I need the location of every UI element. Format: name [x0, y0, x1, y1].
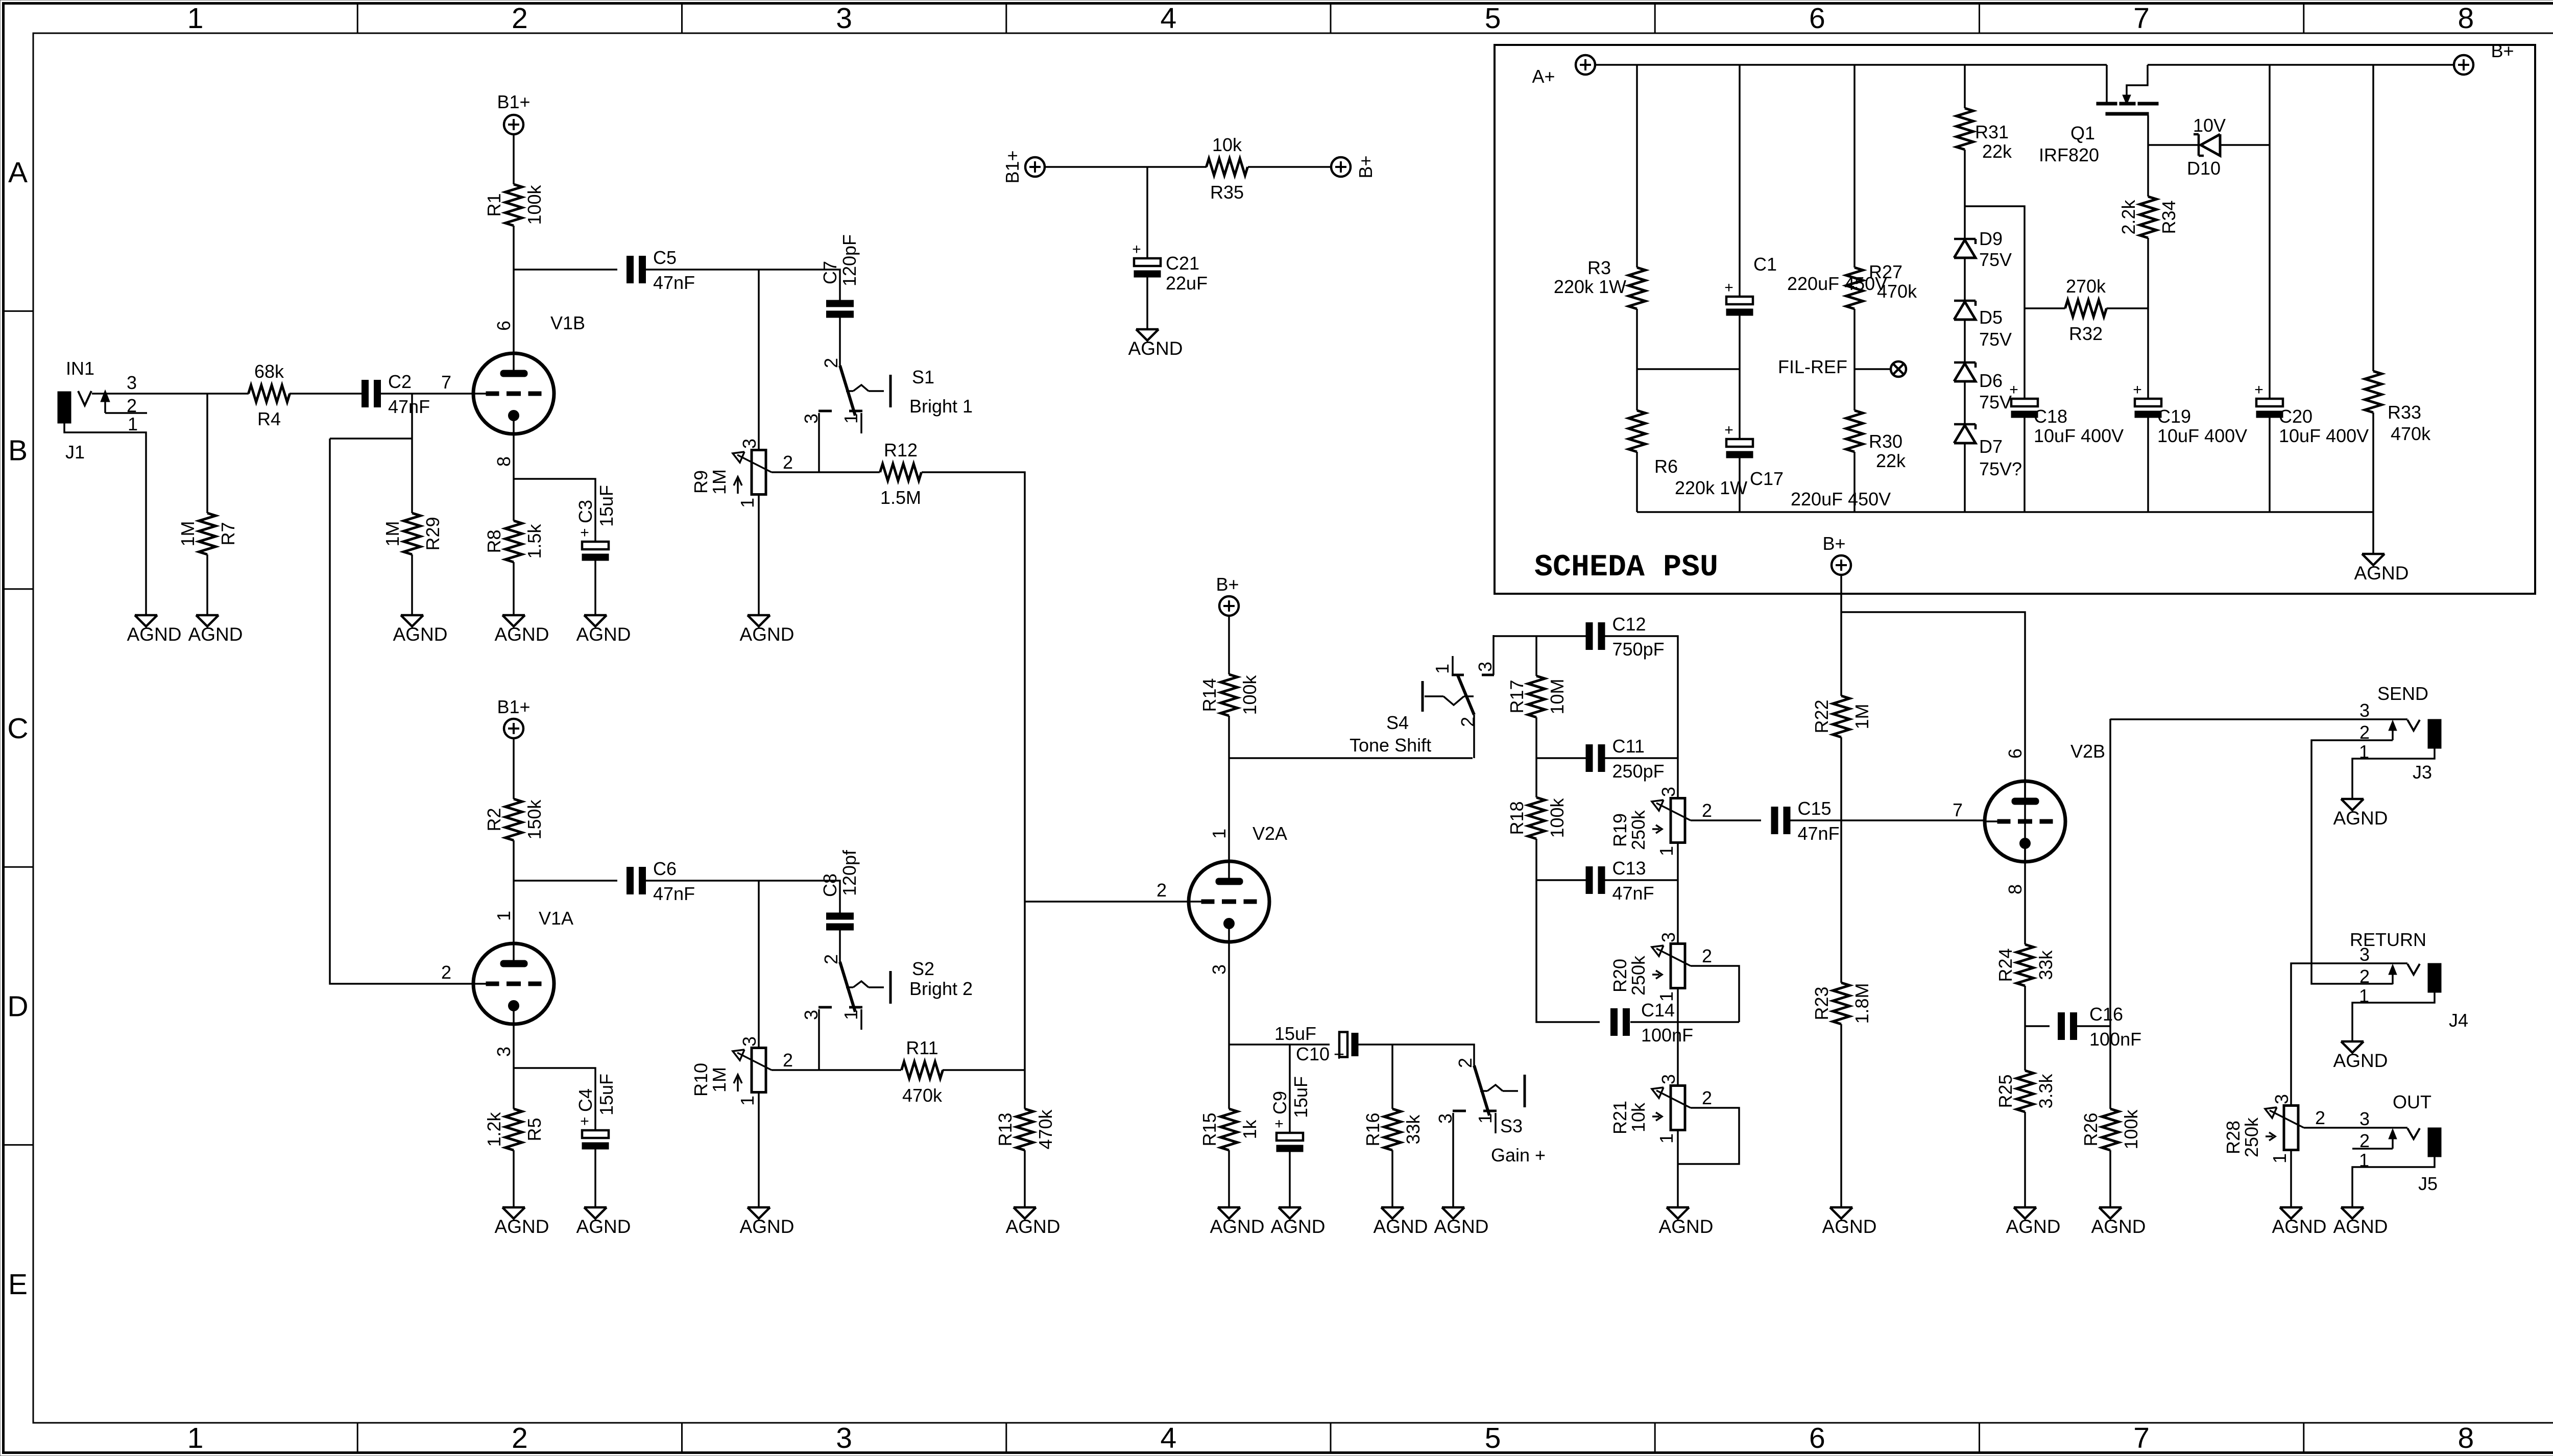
wire [1964, 150, 1966, 239]
svg-text:47nF: 47nF [388, 396, 430, 417]
svg-text:1: 1 [1656, 991, 1677, 1002]
wire [514, 1068, 595, 1130]
switch S1 [801, 358, 973, 433]
wire [772, 1069, 901, 1071]
svg-text:1: 1 [2269, 1153, 2290, 1163]
capacitor C15 [1771, 798, 1840, 844]
triode V2A [1157, 823, 1287, 975]
svg-text:AGND: AGND [1434, 1216, 1489, 1237]
wire [1289, 1045, 1291, 1133]
power terminal B+ (PSU bottom) [1822, 533, 1851, 575]
wire [1964, 381, 1966, 424]
power terminal B+ (V2A) [1216, 574, 1239, 616]
svg-text:B+: B+ [1216, 574, 1239, 595]
svg-text:10uF 400V: 10uF 400V [2034, 425, 2124, 446]
svg-text:220k 1W: 220k 1W [1554, 276, 1626, 297]
svg-text:15uF: 15uF [1274, 1023, 1316, 1044]
resistor R16 [1362, 1109, 1424, 1150]
svg-text:6: 6 [2005, 748, 2026, 759]
label R30 [1869, 431, 1906, 471]
svg-text:R14: R14 [1199, 678, 1220, 712]
svg-text:4: 4 [1161, 1422, 1177, 1454]
svg-text:C17: C17 [1750, 468, 1784, 489]
svg-text:2: 2 [783, 1050, 793, 1071]
svg-text:J5: J5 [2418, 1173, 2438, 1194]
wire [1677, 843, 1679, 944]
svg-text:2: 2 [1457, 717, 1478, 727]
svg-text:120pf: 120pf [839, 850, 860, 896]
triode V1A [441, 908, 573, 1057]
wire [1840, 575, 1842, 696]
capacitor C11 [1586, 736, 1665, 782]
svg-text:C10: C10 [1296, 1044, 1330, 1064]
svg-text:AGND: AGND [2354, 563, 2409, 584]
wire [1229, 757, 1473, 759]
svg-text:B1+: B1+ [497, 696, 530, 717]
svg-text:R22: R22 [1811, 699, 1832, 733]
wire [1289, 1152, 1291, 1207]
svg-text:C1: C1 [1753, 254, 1777, 275]
svg-text:8: 8 [493, 456, 514, 467]
svg-text:1: 1 [187, 2, 204, 35]
switch S3 [1435, 1058, 1546, 1166]
wire [1739, 458, 1741, 512]
svg-text:C9: C9 [1269, 1091, 1290, 1114]
svg-text:75V: 75V [1979, 329, 2012, 350]
svg-text:1: 1 [187, 1422, 204, 1454]
wire [1739, 316, 1741, 439]
svg-text:10uF 400V: 10uF 400V [2279, 425, 2369, 446]
svg-text:AGND: AGND [740, 624, 794, 645]
svg-text:B+: B+ [1355, 155, 1376, 178]
svg-text:D5: D5 [1979, 307, 2003, 328]
svg-text:470k: 470k [1877, 281, 1917, 302]
svg-text:5: 5 [1485, 2, 1501, 35]
wire [92, 393, 249, 395]
ground AGND (R25) [2006, 1207, 2061, 1237]
svg-text:100k: 100k [1239, 674, 1260, 715]
svg-text:1M: 1M [1851, 703, 1872, 729]
svg-text:+: + [1274, 1115, 1284, 1132]
wire [1228, 942, 1230, 1109]
resistor R25 [1995, 1071, 2056, 1112]
wire [1358, 1045, 1474, 1065]
capacitor C2 [362, 371, 430, 417]
capacitor C3 [575, 485, 617, 561]
resistor R5 [484, 1109, 545, 1150]
resistor R33 [2365, 371, 2382, 412]
svg-text:3: 3 [1209, 964, 1230, 975]
svg-text:D7: D7 [1979, 436, 2003, 457]
svg-text:R23: R23 [1811, 986, 1832, 1020]
wire [2109, 1150, 2111, 1207]
svg-text:3: 3 [739, 1036, 760, 1047]
wire [2077, 1025, 2110, 1027]
svg-text:6: 6 [493, 321, 514, 331]
svg-text:AGND: AGND [1128, 338, 1183, 359]
label R3 [1554, 257, 1626, 297]
svg-text:AGND: AGND [1210, 1216, 1265, 1237]
label R33 [2388, 402, 2431, 444]
svg-text:V2A: V2A [1253, 823, 1287, 844]
wire [290, 393, 362, 395]
wire [1536, 757, 1586, 759]
svg-text:1: 1 [1656, 846, 1677, 856]
wire [1228, 616, 1230, 674]
svg-text:R9: R9 [690, 470, 711, 494]
svg-text:8: 8 [2458, 1422, 2474, 1454]
wire [1025, 901, 1190, 903]
svg-text:3: 3 [2359, 944, 2370, 965]
svg-text:2: 2 [512, 1422, 528, 1454]
svg-text:R29: R29 [422, 517, 443, 550]
wire [594, 561, 596, 615]
wire [513, 134, 515, 184]
svg-text:R17: R17 [1506, 680, 1527, 713]
resistor R24 [1995, 944, 2056, 986]
svg-text:470k: 470k [1035, 1109, 1056, 1149]
svg-text:220k 1W: 220k 1W [1675, 477, 1747, 498]
wire [818, 413, 820, 472]
ground AGND (C3) [576, 615, 631, 645]
wire [1637, 511, 2373, 513]
wire [1228, 1150, 1230, 1207]
svg-text:AGND: AGND [1271, 1216, 1326, 1237]
svg-text:6: 6 [1809, 1422, 1825, 1454]
wire [1248, 166, 1331, 168]
svg-text:R32: R32 [2069, 323, 2103, 344]
wire [2304, 1127, 2407, 1129]
jack J4 [2350, 929, 2468, 1031]
svg-text:2: 2 [127, 395, 137, 416]
ground AGND (R5) [495, 1207, 549, 1237]
jack J3 ground wire [2352, 748, 2435, 799]
jack J1 ground wire [64, 422, 146, 615]
svg-text:C16: C16 [2089, 1004, 2123, 1025]
svg-text:C5: C5 [653, 247, 677, 268]
capacitor C20 [2254, 381, 2369, 446]
svg-text:68k: 68k [254, 361, 284, 382]
ground AGND (J1) [127, 615, 182, 645]
svg-text:Tone Shift: Tone Shift [1350, 735, 1431, 756]
ground AGND (R15) [1210, 1207, 1265, 1237]
svg-text:D6: D6 [1979, 370, 2003, 391]
svg-text:+: + [2133, 381, 2142, 398]
svg-text:3: 3 [493, 1047, 514, 1057]
resistor R31 [1957, 108, 1973, 150]
capacitor C14 [1611, 1000, 1694, 1046]
svg-text:Gain +: Gain + [1491, 1145, 1546, 1166]
svg-text:AGND: AGND [1006, 1216, 1061, 1237]
capacitor C18 [2009, 381, 2124, 446]
svg-text:3: 3 [1658, 932, 1679, 942]
svg-text:3: 3 [2359, 1108, 2370, 1129]
svg-text:+: + [580, 1113, 589, 1130]
wire SEND pin2 to RETURN pin2 [2311, 740, 2393, 984]
wire [1739, 65, 1741, 297]
svg-text:470k: 470k [2391, 423, 2431, 444]
wire [1964, 65, 1966, 108]
capacitor C17 [1724, 422, 1891, 509]
resistor R32 [2025, 276, 2148, 344]
svg-text:250k: 250k [1628, 955, 1649, 996]
svg-text:FIL-REF: FIL-REF [1778, 356, 1847, 377]
wire [646, 270, 840, 300]
wire [1391, 1045, 1393, 1109]
wire [2109, 719, 2111, 1109]
svg-text:100k: 100k [1547, 797, 1568, 838]
svg-text:C21: C21 [1166, 253, 1199, 274]
svg-text:250k: 250k [2241, 1117, 2262, 1157]
wire [1964, 258, 1966, 301]
svg-text:AGND: AGND [1659, 1216, 1714, 1237]
label FIL-REF [1778, 356, 1847, 377]
label R31 [1975, 122, 2012, 162]
svg-text:8: 8 [2005, 884, 2026, 894]
svg-text:22k: 22k [1982, 141, 2012, 162]
jack J1 [58, 358, 147, 463]
svg-text:R1: R1 [484, 193, 504, 216]
wire [1452, 1113, 1454, 1207]
wire [1536, 635, 1586, 637]
svg-text:22k: 22k [1876, 450, 1906, 471]
switch S2 [801, 954, 973, 1030]
ground AGND (J5) [2333, 1207, 2388, 1237]
wire [1494, 635, 1536, 637]
ground AGND (J4) [2333, 1041, 2388, 1071]
svg-text:8: 8 [2458, 2, 2474, 35]
label R27 [1869, 261, 1917, 302]
svg-text:C12: C12 [1612, 614, 1646, 635]
wire [513, 840, 515, 943]
svg-text:AGND: AGND [2091, 1216, 2146, 1237]
wire [1596, 64, 2107, 66]
wire [1853, 65, 1856, 268]
svg-text:1k: 1k [1239, 1119, 1260, 1139]
svg-text:2: 2 [1702, 1087, 1712, 1108]
ground AGND (R26) [2091, 1207, 2146, 1237]
resistor R7 [177, 513, 238, 554]
svg-text:IRF820: IRF820 [2039, 144, 2099, 165]
svg-text:SEND: SEND [2377, 683, 2428, 704]
ground AGND (R13) [1006, 1207, 1061, 1237]
svg-text:3: 3 [1658, 787, 1679, 797]
wire [513, 226, 515, 354]
wire [2024, 1112, 2026, 1207]
svg-text:3: 3 [836, 1422, 852, 1454]
wire [206, 554, 208, 615]
wire [206, 394, 208, 513]
resistor R4 [249, 361, 290, 429]
potentiometer R20 [1609, 932, 1712, 1002]
resistor R14 [1199, 674, 1260, 716]
svg-text:R31: R31 [1975, 122, 2009, 142]
svg-text:7: 7 [441, 372, 451, 393]
wire [2269, 418, 2271, 512]
potentiometer R10 [690, 1036, 793, 1106]
ground AGND (R7) [188, 615, 243, 645]
resistor R11 [902, 1037, 943, 1106]
wire [594, 1149, 596, 1207]
svg-text:250k: 250k [1628, 810, 1649, 850]
svg-text:2: 2 [1455, 1058, 1476, 1068]
jack J5 [2359, 1091, 2441, 1194]
wire [330, 439, 473, 984]
power terminal B+ (rail) [1331, 155, 1376, 178]
svg-text:1: 1 [840, 1010, 861, 1020]
svg-text:33k: 33k [1403, 1114, 1424, 1144]
svg-text:D9: D9 [1979, 228, 2003, 249]
svg-text:R2: R2 [484, 808, 504, 831]
svg-text:B+: B+ [1822, 533, 1845, 554]
wire [1391, 1150, 1393, 1207]
resistor R27 [1846, 268, 1863, 309]
svg-text:C: C [7, 712, 28, 745]
wire [1229, 1044, 1330, 1046]
svg-text:3: 3 [127, 372, 137, 393]
svg-text:C6: C6 [653, 858, 677, 879]
wire [758, 494, 760, 615]
triode V2B [1953, 741, 2105, 894]
svg-text:R35: R35 [1210, 182, 1244, 203]
wire [758, 270, 760, 450]
ground AGND (J3) [2333, 799, 2388, 829]
wire [411, 394, 413, 513]
svg-text:R26: R26 [2080, 1112, 2101, 1146]
svg-text:100nF: 100nF [2089, 1029, 2141, 1050]
svg-text:2: 2 [512, 2, 528, 35]
wire [1691, 819, 1761, 821]
svg-text:100nF: 100nF [1641, 1025, 1693, 1046]
wire [758, 881, 760, 1061]
svg-text:E: E [8, 1268, 28, 1301]
wire [514, 269, 617, 271]
wire [513, 1150, 515, 1207]
svg-text:10k: 10k [1212, 134, 1242, 155]
svg-text:1: 1 [493, 911, 514, 921]
zener diode D7 [1954, 424, 2022, 479]
svg-text:15uF: 15uF [1290, 1076, 1311, 1118]
svg-text:AGND: AGND [393, 624, 448, 645]
wire [1536, 880, 1600, 1022]
svg-text:J4: J4 [2449, 1010, 2468, 1031]
svg-text:AGND: AGND [740, 1216, 794, 1237]
PSU box outline [1495, 45, 2535, 594]
jack J5 ground wire [2352, 1157, 2435, 1207]
svg-text:1.5k: 1.5k [524, 523, 545, 559]
capacitor C19 [2133, 381, 2247, 446]
wire [1965, 206, 2025, 399]
svg-text:2: 2 [2315, 1107, 2325, 1128]
ground AGND (R9) [740, 615, 794, 645]
capacitor C1 [1724, 254, 1887, 316]
wire [839, 930, 841, 962]
svg-text:Bright 2: Bright 2 [909, 978, 973, 999]
svg-text:R6: R6 [1654, 456, 1678, 477]
svg-text:1: 1 [1432, 664, 1453, 674]
potentiometer R9 [690, 439, 793, 508]
ground AGND (R16) [1374, 1207, 1428, 1237]
svg-text:150k: 150k [524, 799, 545, 839]
svg-text:AGND: AGND [495, 624, 549, 645]
capacitor C5 [627, 247, 695, 293]
potentiometer R21 [1609, 1074, 1712, 1144]
svg-text:AGND: AGND [576, 1216, 631, 1237]
svg-text:R30: R30 [1869, 431, 1902, 452]
zener diode D5 [1954, 301, 2012, 350]
wire [513, 434, 515, 521]
svg-text:R10: R10 [690, 1063, 711, 1097]
resistor R29 [382, 513, 443, 554]
svg-text:6: 6 [1809, 2, 1825, 35]
resistor R1 [484, 184, 545, 226]
svg-text:1.8M: 1.8M [1851, 983, 1872, 1024]
svg-text:S4: S4 [1386, 712, 1409, 733]
svg-text:1M: 1M [177, 521, 198, 546]
svg-text:R4: R4 [257, 408, 281, 429]
svg-text:R20: R20 [1609, 959, 1630, 992]
svg-text:4: 4 [1161, 2, 1177, 35]
svg-text:AGND: AGND [2272, 1216, 2327, 1237]
resistor R23 [1811, 983, 1872, 1024]
svg-text:R16: R16 [1362, 1112, 1383, 1146]
wire [2025, 1025, 2050, 1027]
resistor R12 [880, 440, 922, 508]
svg-text:1M: 1M [709, 1067, 730, 1093]
svg-text:J3: J3 [2413, 762, 2432, 783]
capacitor C13 [1586, 858, 1654, 904]
capacitor C6 [627, 858, 695, 904]
svg-text:3: 3 [1475, 662, 1496, 672]
svg-text:C3: C3 [575, 500, 596, 523]
svg-text:B1+: B1+ [1002, 150, 1023, 183]
wire [772, 471, 880, 473]
wire [1964, 320, 1966, 362]
svg-text:+: + [580, 524, 589, 541]
zener diode D9 [1954, 228, 2012, 270]
wire [1853, 309, 1856, 410]
svg-text:SCHEDA PSU: SCHEDA PSU [1534, 550, 1718, 585]
wire [1024, 1150, 1026, 1207]
svg-text:R15: R15 [1199, 1112, 1220, 1146]
svg-text:C19: C19 [2157, 406, 2191, 427]
svg-text:3: 3 [2271, 1094, 2292, 1104]
svg-text:C4: C4 [575, 1088, 596, 1112]
svg-text:1.2k: 1.2k [484, 1111, 504, 1147]
svg-text:AGND: AGND [127, 624, 182, 645]
svg-text:R24: R24 [1995, 948, 2016, 982]
svg-text:220uF 450V: 220uF 450V [1791, 489, 1891, 509]
svg-text:15uF: 15uF [596, 485, 617, 527]
wire [2110, 718, 2407, 720]
svg-text:2: 2 [441, 962, 451, 983]
svg-text:A: A [8, 156, 28, 189]
wire [2148, 64, 2454, 66]
svg-text:B+: B+ [2491, 40, 2514, 61]
wire [1677, 1130, 1679, 1207]
svg-text:AGND: AGND [2333, 1050, 2388, 1071]
ground AGND (R29) [393, 615, 448, 645]
svg-text:C11: C11 [1612, 736, 1645, 757]
svg-text:R3: R3 [1587, 257, 1611, 278]
svg-text:1.5M: 1.5M [880, 487, 921, 508]
capacitor C7 [820, 234, 860, 318]
node FIL-REF bullseye [1891, 361, 1906, 377]
wire [1840, 737, 1842, 983]
wire [380, 393, 473, 395]
svg-text:C2: C2 [388, 371, 412, 392]
wire [1630, 1021, 1739, 1023]
